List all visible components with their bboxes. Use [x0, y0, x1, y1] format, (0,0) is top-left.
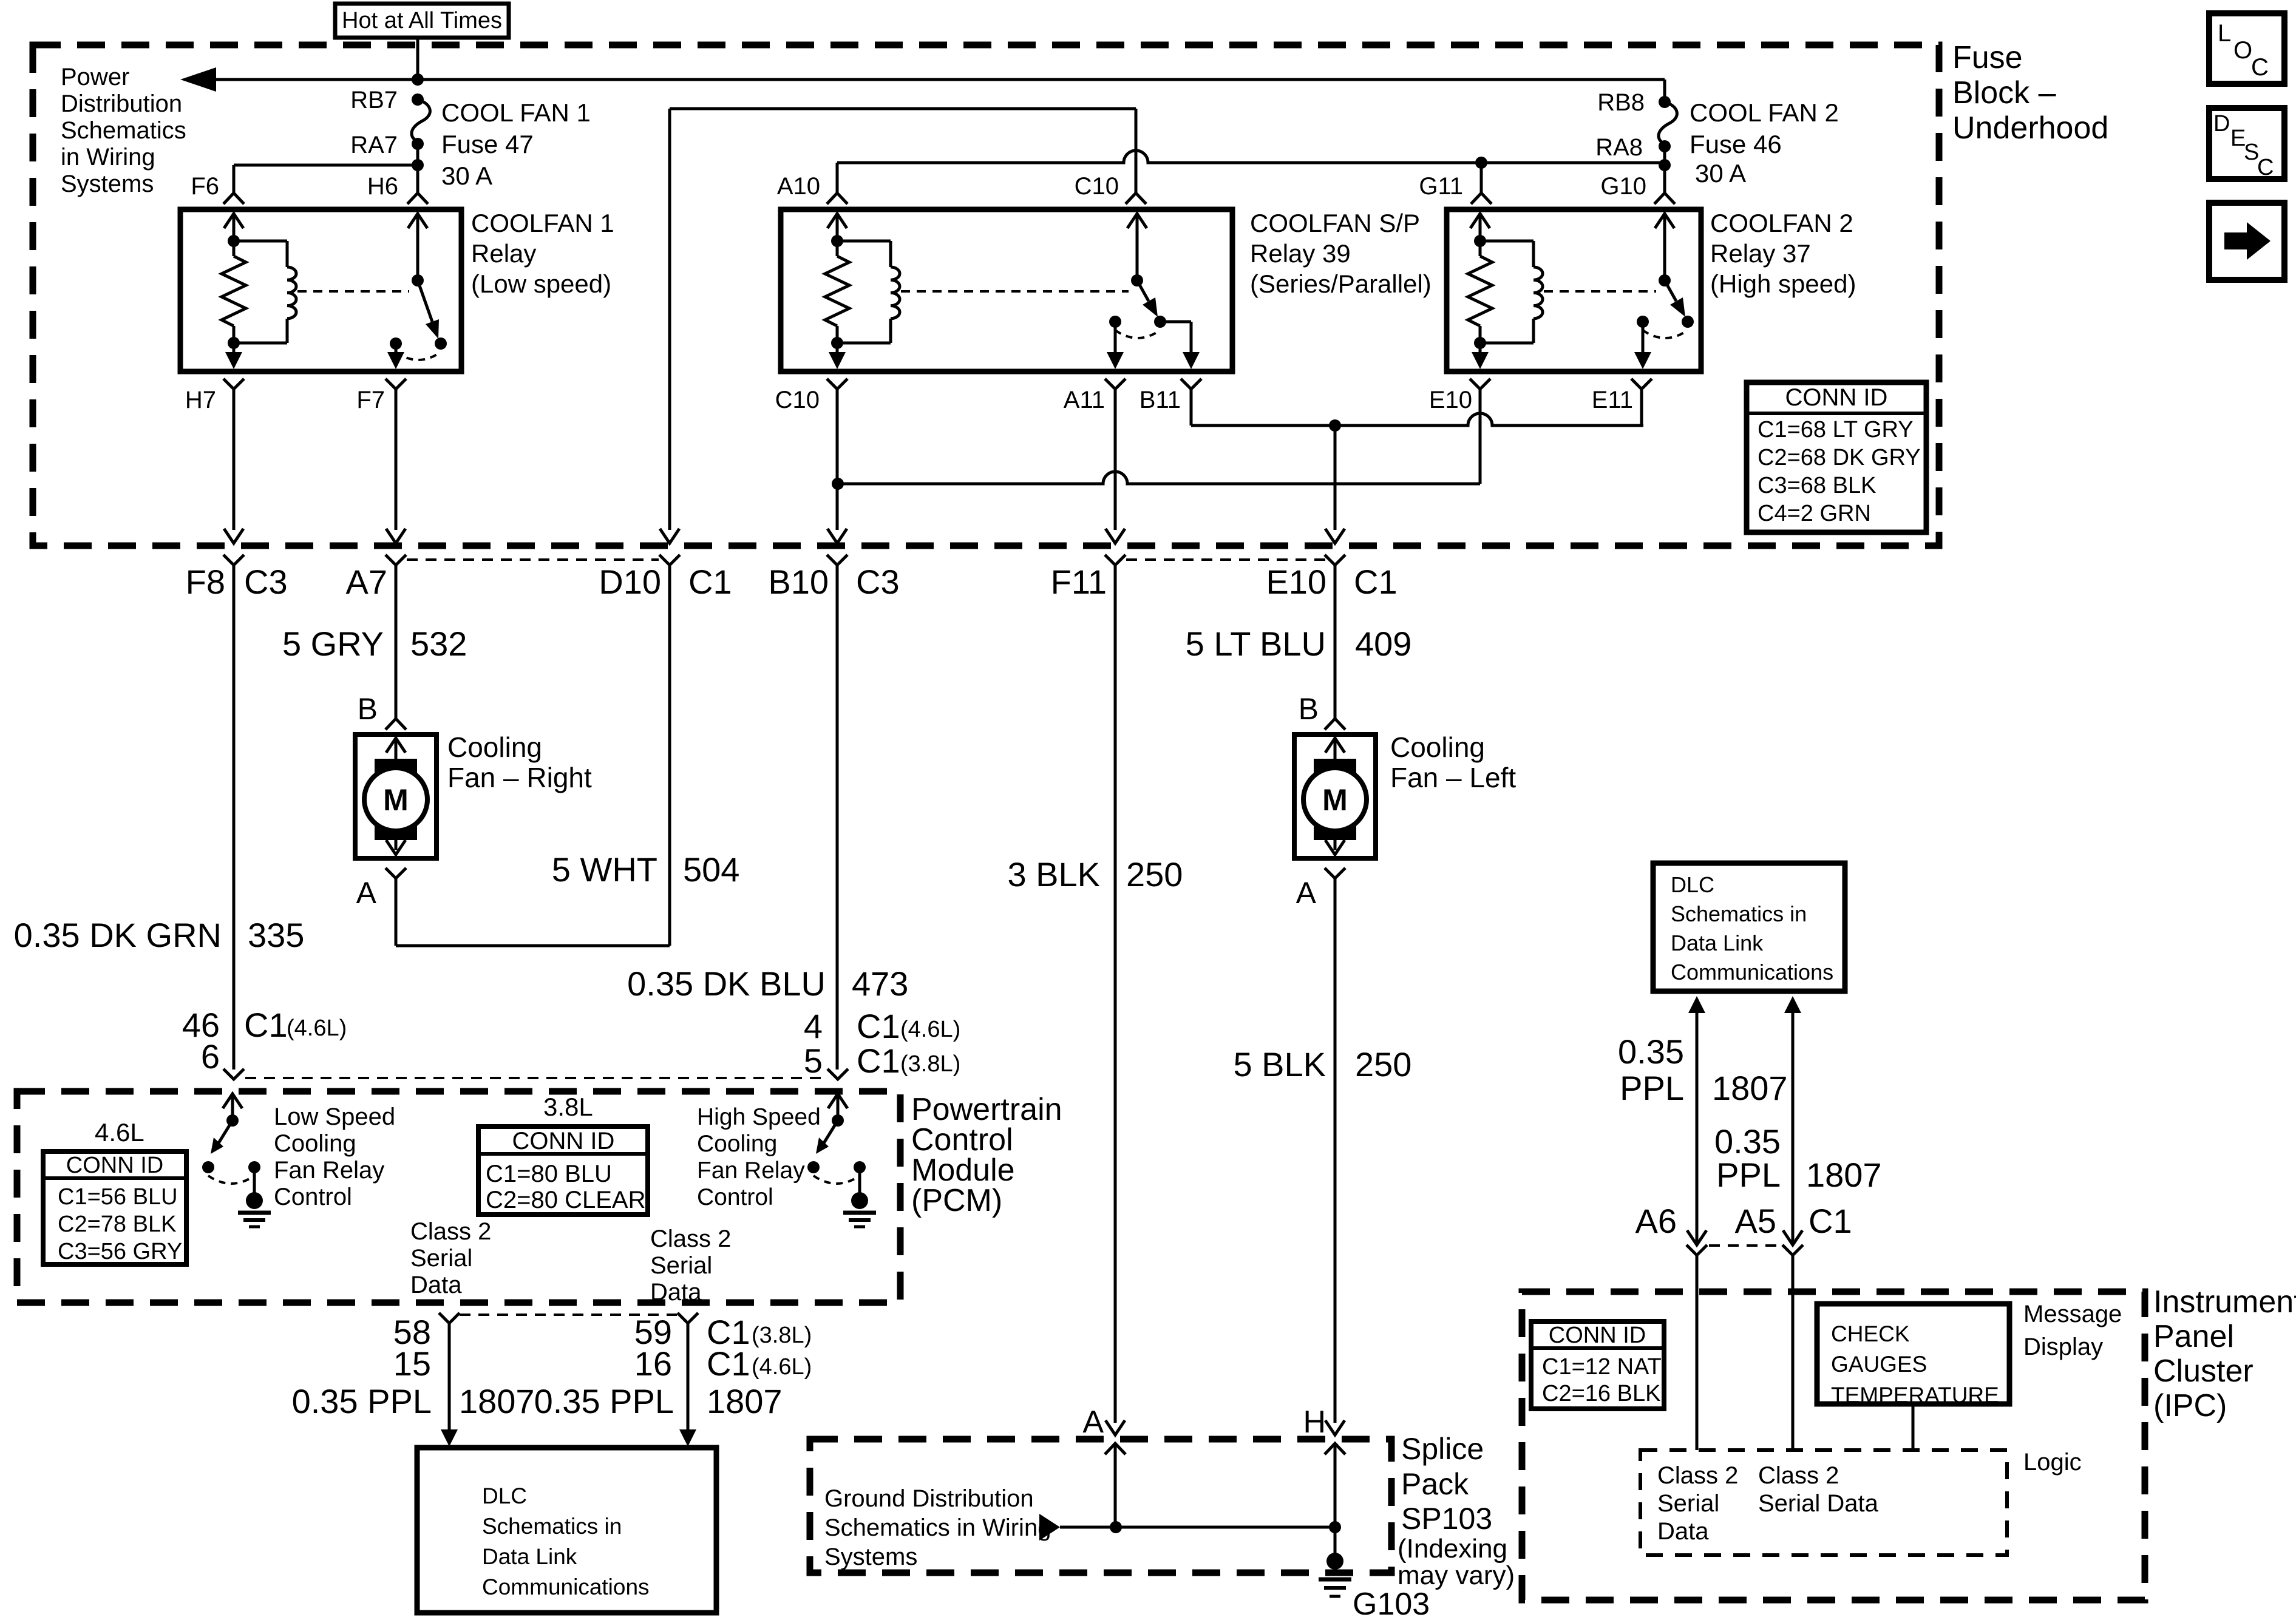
connector boundary dashed 58-59 [460, 1314, 677, 1316]
svg-text:1807: 1807 [1806, 1156, 1882, 1194]
svg-text:5: 5 [804, 1042, 823, 1080]
svg-text:Fan Relay: Fan Relay [274, 1157, 384, 1184]
svg-text:0.35 DK BLU: 0.35 DK BLU [627, 964, 826, 1003]
svg-text:in Wiring: in Wiring [61, 144, 155, 171]
wire Hot-at-All-Times to power rail [412, 38, 424, 86]
svg-text:C1: C1 [688, 563, 732, 601]
svg-text:Serial: Serial [1657, 1490, 1719, 1517]
svg-text:M: M [1322, 783, 1348, 817]
PCM low speed cooling fan relay control driver [202, 1094, 271, 1227]
connector A7 [346, 555, 407, 601]
svg-text:Data: Data [410, 1272, 462, 1298]
PCM high speed cooling fan relay control driver [807, 1094, 876, 1227]
label Class 2 Serial Data left [410, 1218, 491, 1298]
svg-text:Class 2: Class 2 [1758, 1462, 1839, 1489]
label 6 [201, 1037, 220, 1076]
svg-text:Splice: Splice [1401, 1432, 1484, 1466]
connector boundary dashed PCM [245, 1077, 826, 1079]
motor Cooling Fan Left armature [1303, 738, 1367, 855]
relay K39 COOLFAN S/P switch blade [1131, 274, 1158, 317]
svg-text:Fuse 46: Fuse 46 [1690, 130, 1782, 158]
note: Power Distribution Schematics in Wiring Systems [61, 64, 186, 197]
svg-text:(Low speed): (Low speed) [471, 269, 611, 298]
relay K37 COOLFAN 2 coil pin arrow [1470, 214, 1490, 241]
connector pin G11 [1419, 173, 1492, 204]
svg-text:Panel: Panel [2153, 1319, 2234, 1354]
svg-text:C2=16 BLK: C2=16 BLK [1542, 1381, 1660, 1406]
relay K39 COOLFAN S/P switch pin arrow [1127, 214, 1147, 280]
label COOL FAN 2 Fuse 46 30 A [1690, 98, 1839, 188]
wire E10 relay to C10 wire link [838, 401, 1480, 484]
svg-text:Schematics in Wiring: Schematics in Wiring [824, 1514, 1051, 1541]
motor Cooling Fan Right armature [364, 738, 427, 855]
label 5 GRY 532 [282, 625, 467, 663]
exit arrow at x=1379 [827, 529, 847, 543]
svg-text:30 A: 30 A [441, 161, 492, 190]
svg-text:C1: C1 [707, 1344, 750, 1383]
svg-text:(Indexing: (Indexing [1398, 1534, 1507, 1564]
svg-text:E10: E10 [1266, 563, 1326, 601]
svg-text:F7: F7 [356, 387, 385, 413]
svg-text:GAUGES: GAUGES [1831, 1352, 1927, 1377]
wire F11 to splice pack A (3 BLK 250) [1114, 564, 1117, 1423]
connector B10 C3 [768, 555, 899, 601]
svg-text:Serial Data: Serial Data [1758, 1490, 1879, 1517]
svg-text:COOL FAN 1: COOL FAN 1 [441, 98, 591, 127]
label 3 BLK 250 [1007, 855, 1183, 893]
pin label C1 IPC [1809, 1202, 1852, 1240]
connector fan left B [1325, 719, 1345, 730]
svg-text:C10: C10 [1075, 173, 1119, 200]
svg-text:5 LT BLU: 5 LT BLU [1186, 625, 1326, 663]
svg-text:(3.8L): (3.8L) [900, 1051, 960, 1077]
svg-text:5 WHT: 5 WHT [552, 850, 657, 889]
relay K39 COOLFAN S/P resistor [825, 235, 849, 349]
svg-text:6: 6 [201, 1037, 220, 1076]
svg-text:C10: C10 [775, 387, 820, 413]
wire fuse46 output rail to A10 and G10 [837, 146, 1671, 193]
label Fuse Block - Underhood [1952, 40, 2108, 146]
svg-text:COOLFAN 2: COOLFAN 2 [1710, 209, 1853, 237]
svg-text:Control: Control [697, 1184, 773, 1210]
svg-text:C1: C1 [857, 1007, 900, 1045]
svg-text:C2=78 BLK: C2=78 BLK [58, 1212, 176, 1237]
svg-text:H6: H6 [367, 173, 398, 200]
wire fan left A to splice pack H (5 BLK 250) [1334, 878, 1337, 1423]
wire A7 to cooling fan right B (5 GRY 532) [395, 564, 398, 719]
connector IPC A6 [1686, 1230, 1707, 1450]
svg-text:Cooling: Cooling [1390, 731, 1485, 763]
svg-text:RB7: RB7 [350, 87, 398, 114]
legend box arrow [2209, 203, 2284, 280]
svg-text:(4.6L): (4.6L) [287, 1015, 347, 1041]
svg-text:473: 473 [852, 964, 908, 1003]
wire H7 down to F8 [233, 401, 236, 530]
svg-text:Relay: Relay [471, 239, 536, 268]
arrow into DLC right [679, 1429, 696, 1446]
svg-text:PPL: PPL [1716, 1156, 1781, 1194]
box CHECK GAUGES TEMPERATURE [1817, 1304, 2009, 1408]
svg-text:M: M [383, 783, 409, 817]
pin label A fan right [356, 876, 377, 910]
label 0.35 DK BLU 473 [627, 964, 908, 1003]
svg-text:Serial: Serial [410, 1245, 472, 1272]
svg-text:Fuse: Fuse [1952, 40, 2023, 75]
svg-text:335: 335 [248, 916, 304, 954]
label Instrument Panel Cluster (IPC) [2153, 1284, 2296, 1423]
svg-text:A: A [1296, 876, 1317, 910]
connector splice A [1082, 1405, 1126, 1527]
label Splice Pack SP103 (Indexing may vary) [1398, 1432, 1515, 1590]
svg-text:Distribution: Distribution [61, 90, 182, 117]
svg-text:532: 532 [410, 625, 467, 663]
svg-text:O: O [2233, 37, 2252, 64]
svg-text:Message: Message [2023, 1301, 2122, 1327]
connector pin E11 [1592, 379, 1652, 413]
connector pin E10 relay [1429, 379, 1490, 413]
label 3.8L [543, 1093, 593, 1121]
label COOLFAN S/P Relay 39 (Series/Parallel) [1250, 209, 1432, 298]
svg-text:G103: G103 [1353, 1587, 1430, 1617]
svg-text:C1: C1 [1809, 1202, 1852, 1240]
svg-text:Communications: Communications [482, 1575, 650, 1599]
svg-text:Logic: Logic [2023, 1449, 2082, 1476]
svg-text:A: A [356, 876, 377, 910]
connector pin B11 [1140, 379, 1201, 413]
svg-text:F8: F8 [186, 563, 225, 601]
svg-text:B: B [1299, 692, 1319, 726]
svg-text:COOLFAN 1: COOLFAN 1 [471, 209, 614, 237]
svg-text:C2=68 DK GRY: C2=68 DK GRY [1758, 445, 1921, 470]
svg-text:C1=56 BLU: C1=56 BLU [58, 1184, 178, 1210]
svg-text:CONN ID: CONN ID [1549, 1323, 1646, 1348]
relay K39 COOLFAN S/P NO contact elbow to B11 [1160, 322, 1200, 369]
exit arrow at x=1103 [660, 529, 679, 543]
svg-text:Cooling: Cooling [274, 1130, 356, 1157]
label Powertrain Control Module (PCM) [911, 1092, 1062, 1218]
svg-text:(PCM): (PCM) [911, 1183, 1002, 1218]
label 46 C1 (4.6L) [182, 1006, 347, 1044]
label Class 2 Serial Data (IPC left) [1657, 1462, 1738, 1545]
svg-text:C3: C3 [856, 563, 900, 601]
svg-text:16: 16 [634, 1344, 672, 1383]
pin label B fan left [1299, 692, 1319, 726]
svg-text:Data: Data [650, 1279, 702, 1306]
legend box DESC [2209, 108, 2284, 180]
relay K1 COOLFAN 1 switch pin arrow [408, 214, 427, 280]
svg-text:Cooling: Cooling [697, 1131, 777, 1157]
label 4 C1 (4.6L) [804, 1007, 960, 1045]
wire C10 down to B10 [836, 401, 839, 530]
svg-text:Display: Display [2023, 1334, 2103, 1360]
svg-text:4.6L: 4.6L [95, 1118, 144, 1147]
label 5 LT BLU 409 [1186, 625, 1412, 663]
relay K39 COOLFAN S/P contact exit arrow [1107, 322, 1124, 369]
svg-text:Fan – Left: Fan – Left [1390, 762, 1516, 793]
svg-text:CONN ID: CONN ID [512, 1128, 615, 1154]
connector fan right B [385, 719, 406, 730]
svg-text:Fan Relay: Fan Relay [697, 1158, 805, 1184]
svg-text:C1: C1 [244, 1006, 288, 1044]
svg-text:1807: 1807 [707, 1382, 783, 1420]
svg-text:A5: A5 [1735, 1202, 1777, 1240]
svg-text:(High speed): (High speed) [1710, 269, 1856, 298]
svg-text:G10: G10 [1600, 173, 1646, 200]
connector pin A11 [1064, 379, 1126, 413]
svg-text:B: B [358, 692, 378, 726]
svg-text:D: D [2213, 111, 2230, 137]
arrow into DLC from A5 [1784, 996, 1801, 1245]
svg-text:(4.6L): (4.6L) [752, 1354, 812, 1380]
table CONN ID IPC [1531, 1321, 1664, 1409]
box DLC Schematics (upper right) [1653, 863, 1845, 991]
svg-text:1807: 1807 [459, 1382, 535, 1420]
connector C1 PCM entry right [827, 1069, 848, 1079]
svg-text:0.35: 0.35 [1714, 1122, 1781, 1161]
splice pack SP103 dashed box [810, 1439, 1391, 1573]
relay K39 COOLFAN S/P coil [837, 241, 900, 343]
svg-text:C3=68 BLK: C3=68 BLK [1758, 473, 1876, 498]
svg-text:may vary): may vary) [1398, 1561, 1515, 1590]
label 0.35 DK GRN 335 [14, 916, 305, 954]
svg-text:Schematics in: Schematics in [482, 1514, 622, 1539]
svg-text:(3.8L): (3.8L) [752, 1323, 812, 1348]
fuse F46 COOL FAN 2 30A [1659, 96, 1677, 152]
relay K1 COOLFAN 1 coil exit arrow [225, 343, 242, 369]
wire F8 to PCM (DK GRN) [233, 564, 236, 1070]
relay K39 COOLFAN S/P coil exit arrow [829, 343, 846, 369]
svg-text:C1: C1 [857, 1042, 900, 1080]
wire CHECK GAUGES to logic [1912, 1404, 1915, 1450]
label Logic [2023, 1449, 2082, 1476]
splice bus SP103 [1060, 1521, 1341, 1533]
svg-text:RA7: RA7 [350, 132, 398, 158]
relay K1 COOLFAN 1 contact exit arrow [387, 344, 404, 369]
pin label RB7 [350, 87, 398, 114]
svg-text:Relay 39: Relay 39 [1250, 239, 1351, 268]
node splice to E10-C1 [1329, 419, 1341, 530]
node G11 tap [1475, 157, 1487, 193]
svg-text:A11: A11 [1064, 387, 1105, 413]
connector Cooling Fan Left A exit [1325, 868, 1345, 878]
label COOLFAN 1 Relay (Low speed) [471, 209, 614, 298]
svg-text:E10: E10 [1429, 387, 1472, 413]
svg-text:CHECK: CHECK [1831, 1321, 1910, 1346]
svg-text:C1=12 NAT: C1=12 NAT [1542, 1354, 1662, 1380]
svg-text:COOLFAN S/P: COOLFAN S/P [1250, 209, 1420, 237]
wire A11 down to F11 [1114, 401, 1117, 530]
svg-text:15: 15 [393, 1344, 431, 1383]
logic dashed box [1640, 1450, 2007, 1555]
wire D10 to fan right A (5 WHT 504) [396, 564, 670, 946]
svg-text:Fan – Right: Fan – Right [447, 762, 592, 793]
svg-text:Cooling: Cooling [447, 731, 542, 763]
svg-text:A6: A6 [1635, 1202, 1677, 1240]
svg-text:C1: C1 [1354, 563, 1398, 601]
label COOL FAN 1 Fuse 47 30 A [441, 98, 591, 190]
svg-text:COOL FAN 2: COOL FAN 2 [1690, 98, 1839, 127]
label High Speed Cooling Fan Relay Control [697, 1104, 821, 1210]
relay K37 COOLFAN 2 switch pin arrow [1655, 214, 1674, 280]
svg-text:C1=68 LT GRY: C1=68 LT GRY [1758, 417, 1914, 442]
motor Cooling Fan Left box [1294, 734, 1376, 858]
wire B10 to PCM (DK BLU) [836, 564, 839, 1070]
relay K1 COOLFAN 1 switch blade [412, 274, 439, 339]
relay K1 COOLFAN 1 switch contacts [390, 337, 447, 360]
relay K37 COOLFAN 2 contact exit arrow [1634, 322, 1651, 369]
box DLC Schematics in Data Link Communications [417, 1448, 716, 1613]
pin label RB8 [1597, 89, 1645, 116]
svg-text:5 BLK: 5 BLK [1233, 1045, 1326, 1083]
svg-text:C1=80 BLU: C1=80 BLU [486, 1161, 612, 1187]
legend box LOC [2209, 13, 2284, 84]
svg-text:C2=80 CLEAR: C2=80 CLEAR [486, 1187, 645, 1213]
svg-text:Control: Control [274, 1184, 352, 1210]
svg-text:Relay 37: Relay 37 [1710, 239, 1811, 268]
connector PCM pin 59 [634, 1313, 698, 1430]
svg-text:D10: D10 [599, 563, 661, 601]
svg-text:F6: F6 [191, 173, 219, 200]
svg-text:250: 250 [1355, 1045, 1411, 1083]
svg-text:CONN ID: CONN ID [1785, 384, 1888, 411]
svg-text:Block –: Block – [1952, 75, 2056, 110]
connector F11 [1051, 555, 1126, 601]
label Cooling Cooling Fan Left [1390, 731, 1516, 793]
label 0.35 PPL 1807 left [292, 1382, 535, 1420]
svg-text:C: C [2257, 155, 2274, 180]
svg-text:RA8: RA8 [1595, 134, 1643, 161]
svg-text:Cluster: Cluster [2153, 1354, 2254, 1389]
relay K37 COOLFAN 2 coil exit arrow [1472, 343, 1489, 369]
label 5 WHT 504 [552, 850, 740, 889]
ground G103 [1319, 1527, 1351, 1596]
wire fuse47 output to relay K1 pins F6 H6 [234, 144, 424, 193]
wire F7 down to A7 [395, 401, 398, 530]
svg-text:High Speed: High Speed [697, 1104, 821, 1130]
relay K1 COOLFAN 1 resistor [222, 235, 246, 349]
relay K1 COOLFAN 1 actuating dashed link [297, 290, 409, 293]
svg-text:Power: Power [61, 64, 129, 90]
pin label RA8 [1595, 134, 1643, 161]
label Class 2 Serial Data (IPC right) [1758, 1462, 1879, 1517]
fuse F47 COOL FAN 1 30A [412, 93, 430, 150]
connector IPC A5 [1782, 1230, 1803, 1450]
svg-text:TEMPERATURE: TEMPERATURE [1831, 1383, 1999, 1408]
svg-text:0.35 PPL: 0.35 PPL [292, 1382, 432, 1420]
PCM dashed box [17, 1091, 900, 1303]
svg-text:PPL: PPL [1620, 1069, 1684, 1107]
label 0.35 PPL 1807 right [534, 1382, 783, 1420]
svg-text:DLC: DLC [482, 1483, 527, 1508]
svg-text:Class 2: Class 2 [650, 1225, 731, 1252]
svg-text:Schematics: Schematics [61, 117, 186, 144]
table CONN ID fuse block [1747, 382, 1926, 532]
connector boundary dashed F11-E10 [1126, 558, 1325, 561]
connector pin C10 top [1075, 173, 1146, 204]
svg-text:A7: A7 [346, 563, 388, 601]
table CONN ID 4.6L [43, 1151, 186, 1264]
svg-text:5 GRY: 5 GRY [282, 625, 384, 663]
pin label RA7 [350, 132, 398, 158]
arrow into DLC from A6 [1688, 996, 1705, 1245]
connector Cooling Fan Right A exit [385, 868, 406, 878]
wire E10 to cooling fan left B (5 LT BLU 409) [1334, 564, 1337, 719]
table CONN ID 3.8L [478, 1127, 648, 1215]
exit arrow at x=1837 [1106, 529, 1125, 543]
connector E10 C1 [1266, 555, 1397, 601]
IPC dashed box [1522, 1292, 2145, 1600]
svg-text:Communications: Communications [1671, 960, 1833, 985]
label COOLFAN 2 Relay 37 (High speed) [1710, 209, 1856, 298]
svg-text:Instrument: Instrument [2153, 1284, 2296, 1320]
relay K39 COOLFAN S/P box [781, 209, 1232, 371]
svg-text:E11: E11 [1592, 387, 1633, 413]
svg-text:Underhood: Underhood [1952, 110, 2108, 146]
relay K39 COOLFAN S/P switch contacts [1109, 316, 1166, 338]
exit arrow at x=2199 [1325, 529, 1345, 543]
junction box "Hot at All Times" [335, 4, 509, 38]
svg-text:Data: Data [1657, 1518, 1709, 1545]
connector boundary dashed A7-D10 [407, 558, 659, 561]
label Cooling Cooling Fan Right [447, 731, 592, 793]
svg-text:3.8L: 3.8L [543, 1093, 593, 1121]
svg-text:DLC: DLC [1671, 872, 1714, 897]
connector pin G10 [1600, 173, 1675, 204]
power distribution rail [180, 67, 1665, 102]
connector C1 PCM entry left [223, 1069, 244, 1079]
svg-text:Data Link: Data Link [482, 1544, 577, 1569]
connector pin H6 [367, 173, 428, 204]
connector pin F7 [356, 379, 406, 413]
relay K37 COOLFAN 2 switch contacts [1637, 316, 1694, 338]
relay K1 COOLFAN 1 coil [234, 241, 296, 343]
svg-text:250: 250 [1126, 855, 1183, 893]
svg-text:4: 4 [804, 1007, 823, 1045]
svg-text:Class 2: Class 2 [410, 1218, 491, 1245]
label C1 (3.8L) pin59 [707, 1313, 812, 1351]
relay K37 COOLFAN 2 resistor [1468, 235, 1492, 349]
exit arrow at x=385 [224, 529, 243, 543]
svg-text:Schematics in: Schematics in [1671, 901, 1807, 926]
svg-text:B10: B10 [768, 563, 829, 601]
svg-text:L: L [2218, 20, 2231, 47]
splice feed triangle [1039, 1514, 1060, 1541]
node on C10 wire [832, 478, 844, 490]
svg-text:F11: F11 [1051, 563, 1107, 601]
pin label A fan left [1296, 876, 1317, 910]
wire B11 to E11 link [1191, 401, 1643, 425]
svg-text:3 BLK: 3 BLK [1007, 855, 1100, 893]
connector F8 C3 [186, 555, 288, 601]
svg-text:Systems: Systems [824, 1544, 917, 1570]
svg-text:Pack: Pack [1401, 1467, 1469, 1501]
label Message Display [2023, 1301, 2122, 1360]
label G103 [1353, 1587, 1430, 1617]
svg-text:409: 409 [1355, 625, 1411, 663]
svg-text:Data Link: Data Link [1671, 931, 1764, 955]
svg-text:SP103: SP103 [1401, 1502, 1492, 1536]
svg-text:(Series/Parallel): (Series/Parallel) [1250, 269, 1432, 298]
wire D10 to relay K39 common (upper link) [670, 109, 1136, 530]
relay K1 COOLFAN 1 coil pin arrow [224, 214, 243, 241]
relay K37 COOLFAN 2 coil [1480, 241, 1543, 343]
svg-text:G11: G11 [1419, 173, 1463, 200]
connector pin A10 [777, 173, 847, 204]
label 0.35 PPL 1807 (A6) [1618, 1032, 1788, 1107]
relay K37 COOLFAN 2 box [1447, 209, 1701, 371]
arrow into DLC left [441, 1429, 458, 1446]
label Low Speed Cooling Fan Relay Control [274, 1103, 395, 1210]
